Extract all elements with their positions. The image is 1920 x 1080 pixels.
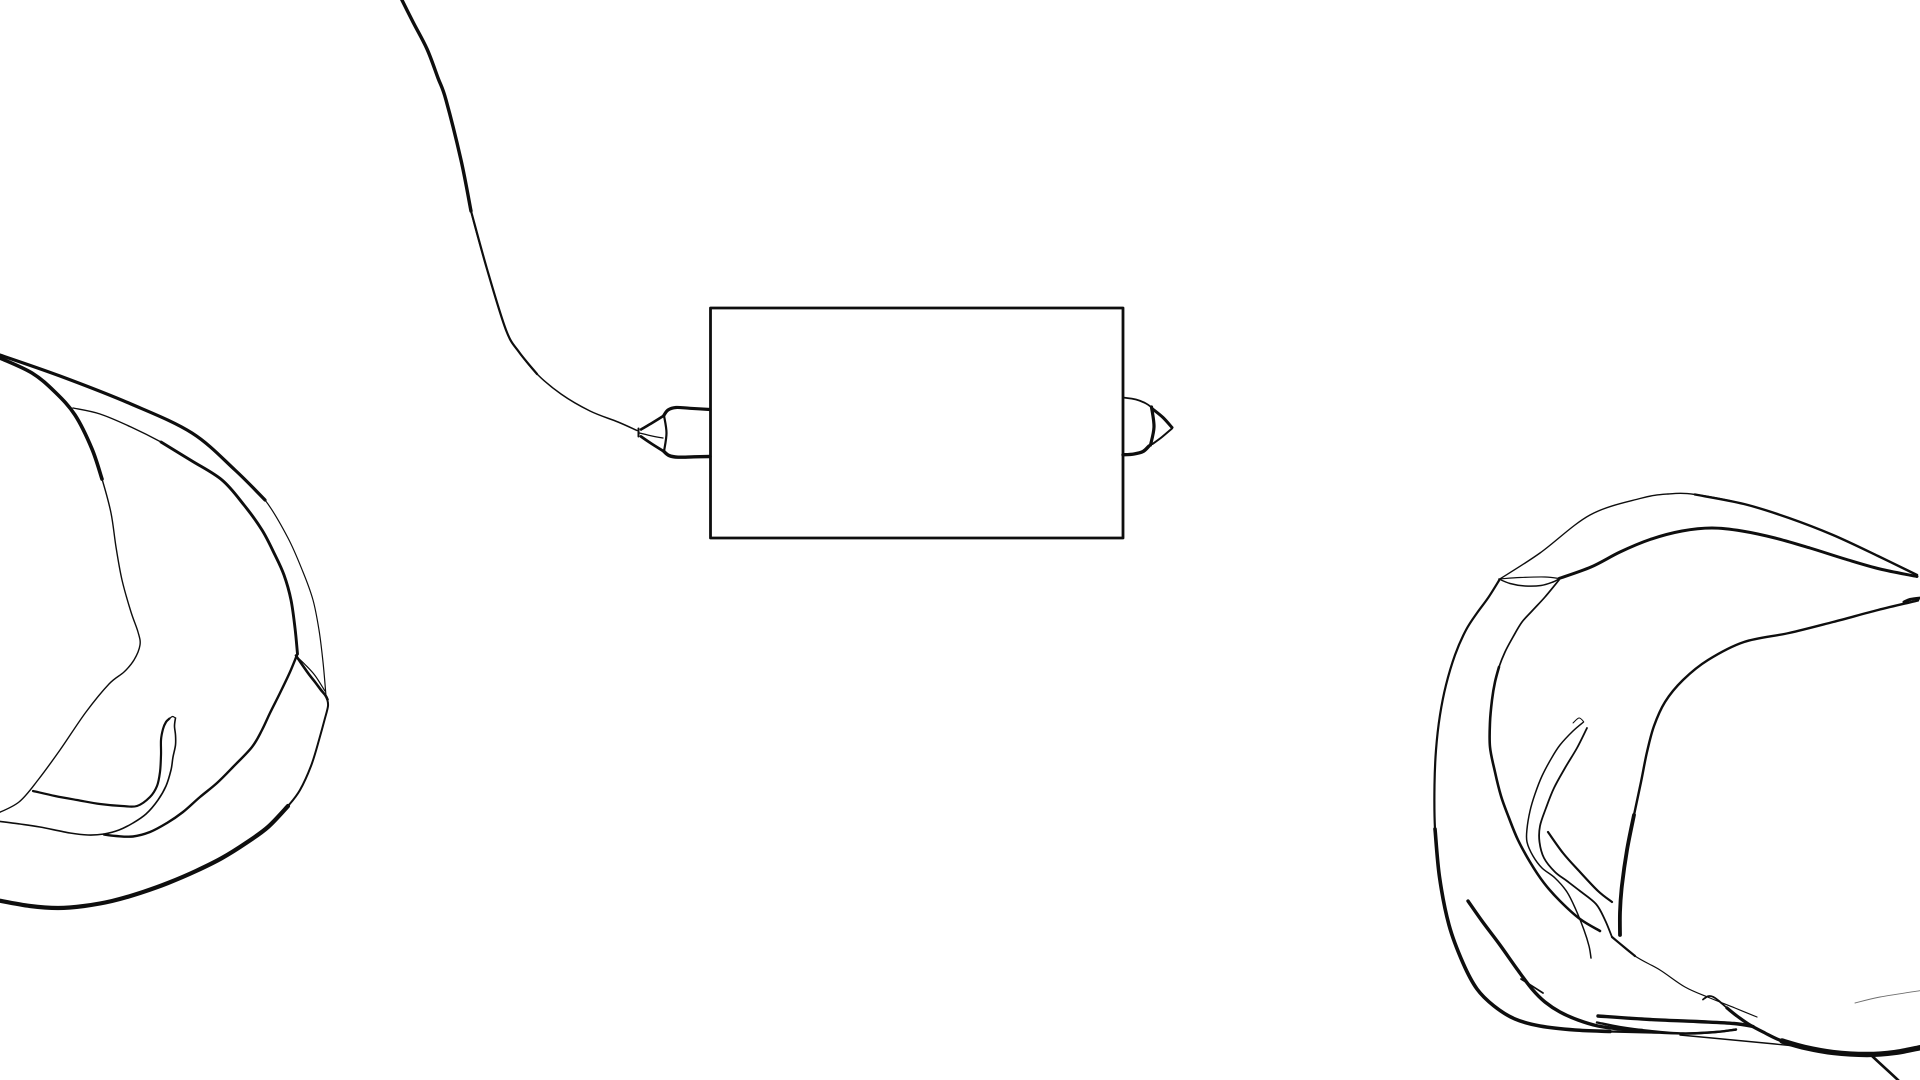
right lead crimp neck xyxy=(1151,407,1155,445)
right earcup seam notch chord xyxy=(1499,577,1559,579)
right earcup bottom diagonal stroke xyxy=(1871,1055,1899,1080)
left earcup seam notch curve xyxy=(296,656,328,700)
left earcup rim outer edge xyxy=(0,353,326,696)
left earcup rim inner edge start xyxy=(73,408,178,452)
left earcup hook inner branch xyxy=(0,718,176,835)
right earcup inner contour s-curve xyxy=(1620,601,1918,936)
headphone cable wire xyxy=(399,0,637,431)
left lead cone upper edge xyxy=(641,416,664,430)
left earcup hook top xyxy=(170,716,176,718)
right earcup heavy restroke arc xyxy=(1468,901,1642,1031)
right earcup bottom thin line xyxy=(1680,1035,1805,1047)
right earcup rim inner edge xyxy=(1559,528,1917,579)
right earcup inner contour cusp xyxy=(1904,598,1920,602)
right earcup bottom lens lower xyxy=(1597,1023,1736,1034)
inline module box xyxy=(711,308,1124,538)
right earcup bottom thick arc xyxy=(1703,996,1920,1055)
right earcup rim outer edge xyxy=(1499,493,1917,579)
right lead cone upper edge xyxy=(1152,409,1172,428)
right lead body bottom xyxy=(1123,446,1149,455)
right earcup hook inner branch xyxy=(1539,728,1612,937)
right earcup faint inner hairline xyxy=(1855,991,1920,1004)
left lead tip tick xyxy=(638,429,640,437)
left lead cone lower edge xyxy=(641,437,664,452)
right earcup bottom lens upper xyxy=(1598,1016,1753,1027)
right lead cone lower edge xyxy=(1153,429,1173,445)
right earcup short spur xyxy=(1521,979,1543,993)
left lead body top xyxy=(664,407,711,416)
right earcup hook tip flick xyxy=(1573,718,1584,723)
left earcup lower rim outer edge xyxy=(0,699,328,909)
left earcup rim inner edge thick xyxy=(161,442,298,654)
left lead center seam xyxy=(640,433,664,438)
left earcup seam notch chord xyxy=(297,657,326,692)
right lead body top xyxy=(1123,398,1151,408)
right earcup seam notch curve xyxy=(1499,579,1559,586)
left lead body bottom xyxy=(664,451,711,457)
right earcup lower inner thin line xyxy=(1612,937,1757,1017)
right earcup outer contour arc xyxy=(1434,581,1736,1034)
right earcup hook outer branch xyxy=(1526,722,1591,958)
left earcup lower rim inner edge xyxy=(104,655,297,837)
left earcup inner contour xyxy=(0,358,140,814)
left lead crimp neck xyxy=(664,416,667,452)
left earcup fold line xyxy=(33,719,170,807)
right earcup rim inner descending arc xyxy=(1490,580,1600,931)
right earcup straight crease line xyxy=(1548,832,1612,902)
